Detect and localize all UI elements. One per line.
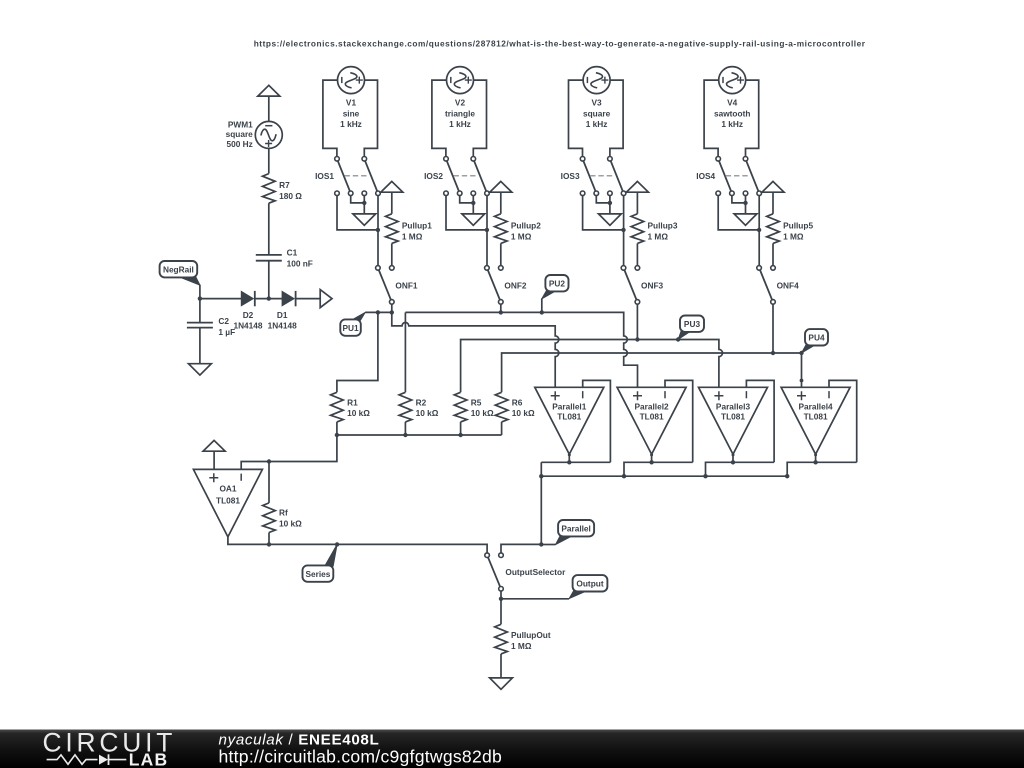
wire V3 loop left	[569, 80, 584, 156]
label R2 10 kohm	[416, 397, 439, 418]
wire OutputSelector common stub	[500, 591, 502, 599]
wire D1 to port	[296, 298, 321, 300]
node Parallel junction	[539, 542, 543, 546]
svg-text:TL081: TL081	[721, 412, 745, 422]
svg-text:500 Hz: 500 Hz	[227, 139, 253, 149]
wire right throw to parallel bus	[501, 544, 541, 553]
svg-text:V1: V1	[346, 98, 357, 108]
wire Parallel4 feedback loop	[829, 380, 857, 462]
svg-text:1 MΩ: 1 MΩ	[402, 232, 423, 242]
node Series junction	[335, 542, 339, 546]
node Parallel1 output junction	[567, 460, 571, 464]
wire NegRail to D2	[200, 298, 241, 300]
wire PU1 bus A	[365, 311, 392, 313]
switch ONF4 SPDT	[757, 266, 776, 305]
wire ONF1 stub down	[391, 304, 393, 312]
wire IOS1 outer-left throw	[337, 196, 378, 230]
svg-text:ONF4: ONF4	[777, 281, 800, 291]
svg-text:http://circuitlab.com/c9gfgtwg: http://circuitlab.com/c9gfgtwgs82db	[219, 746, 503, 766]
svg-text:Output: Output	[576, 579, 603, 589]
svg-text:sawtooth: sawtooth	[714, 108, 750, 118]
svg-text:1 µF: 1 µF	[218, 327, 235, 337]
svg-text:PU2: PU2	[549, 279, 566, 289]
label V4 sawtooth 1 kHz	[714, 98, 750, 129]
svg-text:Parallel4: Parallel4	[799, 401, 834, 411]
diode D1	[282, 291, 296, 306]
capacitor C2	[187, 323, 213, 328]
op-amp Parallel1 TL081	[535, 387, 604, 454]
wire Pullup5 lead	[772, 243, 774, 265]
node IOS2 output junction	[485, 228, 489, 232]
wire Pullup3 lead	[636, 243, 638, 265]
svg-text:D1: D1	[277, 310, 288, 320]
node summing junction R1	[335, 433, 339, 437]
switch IOS2 DPDT	[444, 157, 490, 196]
svg-text:IOS1: IOS1	[315, 171, 334, 181]
node NegRail junction	[198, 296, 202, 300]
power VDD symbol above Pullup2	[490, 181, 512, 192]
wire IOS3 inner throws to ground	[596, 196, 610, 214]
switch ONF3 SPDT	[621, 266, 640, 305]
flag PU2	[542, 275, 569, 299]
svg-text:1 MΩ: 1 MΩ	[783, 232, 804, 242]
node C1 junction	[267, 296, 271, 300]
wire NegRail to C2	[199, 299, 201, 323]
flag Parallel	[556, 520, 595, 545]
label C1 100 nF	[287, 248, 313, 269]
svg-text:Pullup5: Pullup5	[783, 221, 813, 231]
svg-text:NegRail: NegRail	[163, 265, 194, 275]
op-amp Parallel2 TL081	[617, 387, 686, 454]
svg-text:Parallel: Parallel	[561, 524, 591, 534]
wire ONF2 stub down	[500, 304, 502, 312]
wire IOS4 outer-left throw	[718, 196, 759, 230]
wire IOS1 inner throws to ground	[351, 196, 365, 214]
svg-text:R7: R7	[279, 180, 290, 190]
op-amp Parallel3 TL081	[699, 387, 768, 454]
resistor Pullup3	[631, 214, 644, 244]
flag NegRail	[160, 261, 200, 285]
label V3 square 1 kHz	[583, 98, 611, 129]
svg-text:1 kHz: 1 kHz	[449, 119, 471, 129]
wire V2 loop right	[473, 80, 486, 156]
ground below C2	[189, 364, 212, 375]
wire V1 loop right	[364, 80, 377, 156]
wire Parallel2 feedback loop	[665, 380, 693, 462]
svg-text:IOS4: IOS4	[696, 171, 715, 181]
wire PU2 stub	[541, 298, 543, 312]
label R5 10 kohm	[471, 397, 494, 418]
label C2 1 uF	[218, 316, 235, 337]
wire PullupOut to ground	[500, 654, 502, 678]
power VDD symbol above OA1	[203, 440, 225, 451]
node R1 tap	[376, 310, 380, 314]
svg-text:https://electronics.stackexcha: https://electronics.stackexchange.com/qu…	[254, 39, 866, 49]
switch IOS3 DPDT	[580, 157, 626, 196]
label D2 1N4148	[233, 310, 262, 330]
svg-text:Pullup2: Pullup2	[511, 221, 541, 231]
wire PWM1 to R7	[268, 148, 270, 173]
svg-text:TL081: TL081	[216, 495, 240, 505]
wire summing bus to OA1 inverting input	[241, 435, 337, 469]
svg-text:TL081: TL081	[557, 412, 581, 422]
flag PU3	[678, 316, 704, 340]
svg-text:10 kΩ: 10 kΩ	[471, 408, 494, 418]
wire IOS3 outer-left throw	[583, 196, 624, 230]
node ONF3 junction	[635, 337, 639, 341]
node Parallel2 output junction	[649, 460, 653, 464]
flag PU1	[340, 312, 365, 335]
svg-text:Pullup1: Pullup1	[402, 221, 432, 231]
wire Parallel3 feedback loop	[746, 380, 774, 462]
op-amp OA1 TL081	[193, 469, 262, 537]
svg-text:square: square	[226, 129, 254, 139]
svg-text:IOS3: IOS3	[561, 171, 580, 181]
node parallel bus junction	[539, 474, 543, 478]
wire C1 to diode row	[268, 261, 270, 299]
wire parallel bus vertical	[540, 462, 542, 544]
ground IOS1	[353, 214, 376, 225]
node ONF1 junction	[390, 310, 394, 314]
node PU2 junction	[540, 310, 544, 314]
voltage source V3	[583, 67, 610, 94]
voltage source V2	[447, 67, 474, 94]
switch IOS4 DPDT	[716, 157, 762, 196]
wire Pullup1 lead	[391, 243, 393, 265]
svg-text:R1: R1	[347, 397, 358, 407]
wire VDD to Pullup1	[391, 192, 393, 214]
label V1 sine 1 kHz	[340, 98, 362, 129]
wire Pullup2 lead	[500, 243, 502, 265]
wire V2 loop left	[432, 80, 447, 156]
wire PU1 bus B with hop over R2	[392, 312, 559, 387]
node IOS2 ground junction	[471, 201, 475, 205]
wire VDD to Pullup5	[772, 192, 774, 214]
resistor R6	[495, 392, 508, 422]
node output bus junction 3	[703, 474, 707, 478]
label R6 10 kohm	[512, 397, 535, 418]
footer bar	[0, 730, 1024, 768]
power VDD symbol above Pullup5	[762, 181, 784, 192]
node PU3 junction	[676, 337, 680, 341]
resistor Rf	[263, 462, 276, 545]
wire NegRail stub	[199, 285, 201, 299]
resistor R2	[399, 392, 412, 422]
wire PU2 bus to Parallel2 input	[405, 312, 637, 387]
node summing junction R5	[458, 433, 462, 437]
svg-text:ONF1: ONF1	[395, 281, 418, 291]
wire to PullupOut	[500, 599, 502, 625]
svg-text:V4: V4	[727, 98, 738, 108]
wire R1 drop	[337, 312, 378, 392]
voltage source V1	[338, 67, 365, 94]
wire Parallel3 output stub	[732, 454, 734, 462]
wire V3 loop right	[610, 80, 623, 156]
port arrow output flag	[320, 290, 332, 308]
wire OA1 output bus	[228, 537, 487, 553]
label V2 triangle 1 kHz	[445, 98, 475, 129]
svg-text:1 MΩ: 1 MΩ	[648, 232, 669, 242]
svg-text:1 kHz: 1 kHz	[721, 119, 743, 129]
wire Parallel1 output stub	[568, 454, 570, 462]
wire Parallel1 feedback loop	[583, 380, 611, 462]
svg-text:Parallel2: Parallel2	[635, 401, 670, 411]
svg-text:1 kHz: 1 kHz	[340, 119, 362, 129]
svg-text:180 Ω: 180 Ω	[279, 191, 302, 201]
svg-text:square: square	[583, 108, 611, 118]
power VDD symbol above PWM1	[258, 85, 280, 96]
switch ONF2 SPDT	[485, 266, 504, 305]
label Pullup1 1 Mohm	[402, 221, 432, 242]
label R1 10 kohm	[347, 397, 370, 418]
svg-text:1 MΩ: 1 MΩ	[511, 232, 532, 242]
flag Series	[303, 544, 338, 581]
switch IOS1 DPDT	[335, 157, 381, 196]
ground below PullupOut	[490, 678, 513, 689]
label D1 1N4148	[268, 310, 297, 330]
resistor Pullup5	[767, 214, 780, 244]
wire C2 to ground	[199, 328, 201, 364]
node IOS3 ground junction	[608, 201, 612, 205]
wire IOS2 outer-right throw down to ONF2	[486, 196, 488, 266]
node summing junction R2	[403, 433, 407, 437]
power VDD symbol above Pullup3	[626, 181, 648, 192]
svg-text:triangle: triangle	[445, 108, 475, 118]
label R7 180 ohm	[279, 180, 302, 201]
node Rf bottom junction	[267, 542, 271, 546]
node output bus junction 2	[622, 474, 626, 478]
svg-text:LAB: LAB	[129, 750, 169, 768]
wire R1 bottom lead	[336, 422, 338, 435]
node Output junction	[499, 597, 503, 601]
label PullupOut 1 Mohm	[511, 630, 551, 651]
svg-text:C2: C2	[218, 316, 229, 326]
svg-text:Rf: Rf	[279, 508, 288, 518]
svg-text:ONF2: ONF2	[504, 281, 527, 291]
flag PU4	[802, 329, 829, 353]
label PWM1 square 500 Hz	[226, 120, 254, 149]
wire R5 bottom lead	[460, 422, 462, 435]
svg-text:PullupOut: PullupOut	[511, 630, 551, 640]
resistor R5	[454, 392, 467, 422]
wire Parallel1 output row	[541, 461, 610, 463]
svg-text:R6: R6	[512, 397, 523, 407]
svg-text:ONF3: ONF3	[641, 281, 664, 291]
voltage source V4	[719, 67, 746, 94]
voltage source PWM1	[255, 121, 282, 148]
logo CIRCUIT LAB	[43, 728, 177, 768]
wire R2 vertical	[404, 312, 406, 392]
svg-text:10 kΩ: 10 kΩ	[347, 408, 370, 418]
wire IOS1 outer-right throw down to ONF1	[377, 196, 379, 266]
wire parallel output bus	[541, 475, 787, 477]
node Parallel4 output junction	[813, 460, 817, 464]
svg-text:PU1: PU1	[342, 323, 359, 333]
svg-text:TL081: TL081	[640, 412, 664, 422]
wire IOS2 outer-left throw	[446, 196, 487, 230]
svg-text:1 MΩ: 1 MΩ	[511, 641, 532, 651]
wire Parallel2 output row	[624, 462, 693, 476]
label Pullup5 1 Mohm	[783, 221, 813, 242]
svg-text:10 kΩ: 10 kΩ	[512, 408, 535, 418]
svg-text:100 nF: 100 nF	[287, 259, 313, 269]
ground IOS2	[462, 214, 485, 225]
wire to Output flag	[501, 598, 569, 600]
svg-text:Parallel1: Parallel1	[552, 401, 587, 411]
wire PU4 bus D from R6 to Parallel4 input	[502, 353, 802, 392]
svg-text:10 kΩ: 10 kΩ	[279, 519, 302, 529]
node IOS1 output junction	[376, 228, 380, 232]
op-amp Parallel4 TL081	[781, 387, 850, 454]
power VDD symbol above Pullup1	[381, 181, 403, 192]
label Pullup3 1 Mohm	[648, 221, 678, 242]
wire VDD to Pullup3	[636, 192, 638, 214]
resistor Pullup2	[495, 214, 508, 244]
svg-text:R5: R5	[471, 397, 482, 407]
svg-text:D2: D2	[243, 310, 254, 320]
node IOS4 output junction	[757, 228, 761, 232]
wire ONF3 stub down	[636, 304, 638, 339]
switch OutputSelector SPDT	[485, 553, 504, 591]
wire Parallel label stub	[541, 544, 555, 546]
ground IOS4	[734, 214, 757, 225]
label Pullup2 1 Mohm	[511, 221, 541, 242]
node Rf top junction	[267, 459, 271, 463]
svg-text:sine: sine	[343, 108, 360, 118]
svg-text:C1: C1	[287, 248, 298, 258]
wire R6 bottom lead	[501, 422, 503, 435]
node IOS3 output junction	[621, 228, 625, 232]
wire IOS4 inner throws to ground	[732, 196, 746, 214]
switch ONF1 SPDT	[376, 266, 395, 305]
wire Parallel4 output row	[787, 462, 857, 476]
wire R2 bottom lead	[404, 422, 406, 435]
svg-text:PU4: PU4	[808, 333, 825, 343]
resistor R1	[331, 392, 344, 422]
svg-text:1N4148: 1N4148	[233, 320, 262, 330]
wire PU3 bus C from R5 to Parallel3 input	[461, 340, 723, 393]
wire D2 to D1	[255, 298, 282, 300]
ground IOS3	[599, 214, 622, 225]
svg-text:10 kΩ: 10 kΩ	[416, 408, 439, 418]
capacitor C1	[256, 255, 282, 261]
node IOS1 ground junction	[362, 201, 366, 205]
svg-text:1 kHz: 1 kHz	[586, 119, 608, 129]
svg-text:PU3: PU3	[684, 319, 701, 329]
node output bus junction 4	[785, 474, 789, 478]
node ONF4 junction	[771, 351, 775, 355]
svg-text:Series: Series	[305, 569, 330, 579]
wire IOS2 inner throws to ground	[460, 196, 474, 214]
svg-text:OA1: OA1	[219, 484, 236, 494]
wire V1 loop left	[323, 80, 338, 156]
wire ONF4 stub down	[772, 304, 774, 353]
resistor PullupOut	[495, 624, 508, 654]
svg-text:V2: V2	[455, 98, 466, 108]
wire VDD to Pullup2	[500, 192, 502, 214]
svg-text:Parallel3: Parallel3	[716, 401, 751, 411]
wire Parallel2 output stub	[651, 454, 653, 462]
svg-text:R2: R2	[416, 397, 427, 407]
diode D2	[241, 291, 255, 306]
svg-text:TL081: TL081	[804, 412, 828, 422]
node Parallel3 output junction	[731, 460, 735, 464]
svg-text:OutputSelector: OutputSelector	[505, 567, 566, 577]
label Rf 10 kohm	[279, 508, 302, 529]
resistor Pullup1	[386, 214, 399, 244]
wire VDD to PWM1	[268, 96, 270, 121]
wire summing bus	[337, 434, 502, 436]
svg-text:Pullup3: Pullup3	[648, 221, 678, 231]
wire V4 loop left	[704, 80, 719, 156]
node PU4 junction	[799, 351, 803, 355]
flag Output	[569, 575, 607, 599]
svg-text:V3: V3	[592, 98, 603, 108]
node IOS4 ground junction	[743, 201, 747, 205]
wire Parallel3 output row	[706, 462, 775, 476]
wire IOS3 outer-right throw down to ONF3	[623, 196, 625, 266]
node Parallel4 input pin	[800, 379, 804, 383]
wire V4 loop right	[746, 80, 759, 156]
wire IOS4 outer-right throw down to ONF4	[758, 196, 760, 266]
node ONF2 junction	[499, 310, 503, 314]
svg-text:IOS2: IOS2	[424, 171, 443, 181]
wire R7 to C1	[268, 203, 270, 255]
wire VDD to OA1 non-inverting input	[213, 451, 215, 469]
resistor R7	[263, 174, 276, 204]
svg-text:PWM1: PWM1	[228, 120, 253, 130]
wire Parallel4 output stub	[815, 454, 817, 462]
svg-text:1N4148: 1N4148	[268, 320, 297, 330]
